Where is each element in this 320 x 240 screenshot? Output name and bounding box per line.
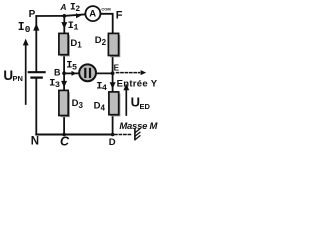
wire right branch D2 to E to D4 xyxy=(112,56,114,91)
current arrow I3 xyxy=(61,81,67,88)
svg-text:B: B xyxy=(54,67,61,77)
voltage arrow U_PN xyxy=(23,39,29,104)
svg-text:Entrée Y: Entrée Y xyxy=(117,78,158,89)
voltage arrow U_ED xyxy=(123,84,129,116)
ground masse symbol xyxy=(135,129,140,140)
current arrow I0 xyxy=(33,23,39,30)
svg-text:COM: COM xyxy=(101,7,111,12)
wire left branch upper (P to battery) xyxy=(35,16,37,71)
wire galvanometer to E xyxy=(97,72,113,74)
svg-text:I3: I3 xyxy=(49,77,60,89)
node E xyxy=(111,71,115,75)
current arrow I1 xyxy=(61,22,67,29)
svg-text:I0: I0 xyxy=(18,21,31,35)
current arrow I4 xyxy=(110,82,116,89)
svg-text:UED: UED xyxy=(131,94,151,110)
svg-text:D4: D4 xyxy=(94,101,106,113)
svg-text:N: N xyxy=(31,136,39,147)
node A xyxy=(62,14,66,18)
wire bottom N to C to D xyxy=(36,134,112,136)
svg-text:I5: I5 xyxy=(66,59,77,72)
wire middle branch D1 to B to D3 xyxy=(63,55,65,89)
wire top P to node A xyxy=(36,15,64,17)
wire middle branch A to D1 xyxy=(63,16,65,33)
node C xyxy=(62,133,66,137)
svg-text:A: A xyxy=(59,2,66,12)
battery (short plate) xyxy=(32,76,42,78)
galvanometer detector circle xyxy=(79,64,96,81)
svg-text:UPN: UPN xyxy=(3,68,23,83)
node D xyxy=(111,133,115,137)
svg-text:A: A xyxy=(89,8,96,19)
resistor D4 xyxy=(109,92,121,116)
ammeter U1 circle xyxy=(85,6,100,21)
wire B to galvanometer xyxy=(64,72,78,74)
node B xyxy=(62,71,66,75)
wire right branch D4 to D xyxy=(112,116,114,135)
svg-text:D3: D3 xyxy=(72,98,84,110)
wire middle branch D3 to C xyxy=(63,117,65,135)
svg-text:Masse M: Masse M xyxy=(119,121,158,132)
resistor D3 xyxy=(59,90,70,117)
svg-text:I4: I4 xyxy=(96,80,107,93)
svg-text:C: C xyxy=(60,135,70,147)
svg-text:E: E xyxy=(114,63,120,72)
current arrow I2 xyxy=(76,13,81,18)
svg-text:D2: D2 xyxy=(95,35,107,47)
resistor D1 xyxy=(59,33,70,56)
svg-text:F: F xyxy=(116,10,123,22)
svg-text:I2: I2 xyxy=(70,3,81,14)
current arrow I5 xyxy=(72,71,77,76)
battery (long plate) xyxy=(29,71,45,73)
wire node A to ammeter xyxy=(64,14,85,16)
svg-text:D1: D1 xyxy=(70,38,82,50)
resistor D2 xyxy=(108,33,120,57)
wire left branch lower (battery to N) xyxy=(35,79,37,135)
dashed arrow E to Entree Y xyxy=(117,70,147,75)
svg-text:P: P xyxy=(29,9,36,20)
svg-text:D: D xyxy=(109,137,116,147)
svg-text:I1: I1 xyxy=(68,20,79,33)
dashed wire D to masse xyxy=(115,134,132,136)
wire ammeter to F corner down to D2 xyxy=(101,14,113,33)
